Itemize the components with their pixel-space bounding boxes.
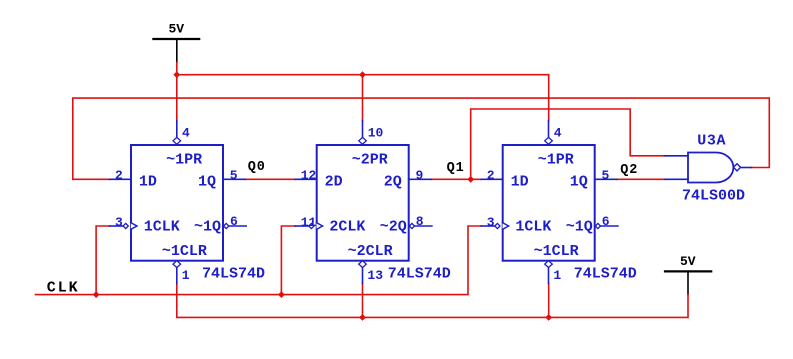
svg-text:1Q: 1Q: [198, 174, 216, 191]
svg-text:1Q: 1Q: [570, 174, 588, 191]
svg-text:Q0: Q0: [248, 160, 266, 175]
wire 5V down to U1 PR pin: [176, 63, 178, 121]
flip-flop U1 74LS74D body: [110, 121, 247, 284]
svg-text:9: 9: [416, 168, 424, 183]
svg-text:5V: 5V: [169, 22, 185, 37]
junction dot CLR bus / U3 CLR: [545, 314, 552, 321]
svg-text:3: 3: [115, 215, 123, 230]
svg-text:2: 2: [115, 168, 123, 183]
wire CLR bus to 5V (right): [177, 284, 688, 318]
svg-text:74LS74D: 74LS74D: [574, 265, 637, 282]
wire 5V PR bus horizontal: [177, 74, 549, 76]
svg-text:6: 6: [230, 214, 238, 229]
svg-text:1D: 1D: [511, 174, 529, 191]
wire U2 CLR drop: [362, 284, 364, 318]
svg-text:2D: 2D: [325, 174, 343, 191]
junction dot CLR bus / U2 CLR: [359, 314, 366, 321]
svg-text:1: 1: [182, 268, 190, 283]
wire CLK bus: [36, 226, 482, 295]
svg-text:1CLK: 1CLK: [144, 219, 180, 236]
svg-text:1: 1: [553, 268, 561, 283]
svg-text:Q2: Q2: [620, 163, 638, 178]
svg-text:11: 11: [301, 215, 317, 230]
svg-text:4: 4: [182, 126, 190, 141]
junction dot 5V bus / U1 PR: [173, 71, 180, 78]
NAND gate U3A body: [665, 153, 752, 183]
svg-text:~1PR: ~1PR: [166, 151, 202, 168]
svg-text:1CLK: 1CLK: [515, 219, 551, 236]
wire CLK branch to U2 clock: [281, 226, 295, 295]
power symbol 5V (left): [153, 39, 199, 63]
svg-text:13: 13: [367, 268, 383, 283]
junction dot CLK bus / U2 clock: [278, 291, 285, 298]
wire PR drop to U3: [548, 75, 550, 121]
svg-text:10: 10: [368, 126, 384, 141]
flip-flop U2 74LS74D body: [295, 121, 432, 284]
junction dot PR bus / U2 PR: [359, 71, 366, 78]
svg-text:~1Q: ~1Q: [194, 219, 221, 236]
wire PR drop to U2: [362, 75, 364, 121]
wire Q1 net: [431, 178, 481, 180]
svg-text:1D: 1D: [139, 174, 157, 191]
svg-text:8: 8: [416, 214, 424, 229]
svg-text:74LS74D: 74LS74D: [202, 265, 265, 282]
svg-text:U3A: U3A: [697, 132, 726, 149]
wire CLK branch to U1 clock: [96, 226, 109, 295]
svg-text:5: 5: [230, 168, 238, 183]
svg-text:~2PR: ~2PR: [352, 151, 388, 168]
svg-text:6: 6: [602, 214, 610, 229]
wire Q1 to NAND input A: [471, 109, 665, 179]
junction dot Q1 branch: [467, 176, 474, 183]
svg-text:5: 5: [602, 168, 610, 183]
wire U3 CLR drop: [548, 284, 550, 318]
flip-flop U3 74LS74D body: [481, 121, 618, 284]
wire Q2 net to NAND input B: [617, 178, 665, 180]
svg-text:12: 12: [301, 168, 317, 183]
svg-text:5V: 5V: [680, 254, 696, 269]
svg-text:Q1: Q1: [447, 161, 465, 176]
svg-text:3: 3: [487, 215, 495, 230]
svg-text:~2Q: ~2Q: [380, 219, 407, 236]
svg-text:74LS00D: 74LS00D: [682, 187, 745, 204]
power symbol 5V (right): [665, 271, 711, 294]
svg-text:4: 4: [554, 126, 562, 141]
svg-text:~1CLR: ~1CLR: [534, 243, 579, 260]
wire NAND output feedback to U1 1D: [73, 98, 770, 179]
svg-text:~1CLR: ~1CLR: [162, 243, 207, 260]
svg-text:~1PR: ~1PR: [538, 151, 574, 168]
svg-text:~2CLR: ~2CLR: [348, 243, 393, 260]
svg-text:2: 2: [487, 168, 495, 183]
svg-text:74LS74D: 74LS74D: [388, 265, 451, 282]
wire Q0 net: [246, 178, 296, 180]
svg-text:2CLK: 2CLK: [329, 219, 365, 236]
svg-text:~1Q: ~1Q: [566, 219, 593, 236]
junction dot CLK bus / U1 clock: [93, 291, 100, 298]
svg-text:2Q: 2Q: [384, 174, 402, 191]
svg-text:CLK: CLK: [47, 279, 80, 296]
